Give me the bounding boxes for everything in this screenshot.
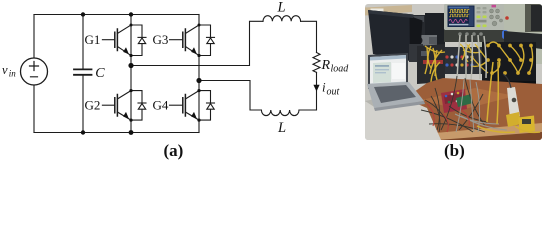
- svg-text:G3: G3: [153, 32, 169, 47]
- svg-text:R: R: [321, 58, 331, 73]
- svg-text:v: v: [2, 63, 8, 77]
- svg-text:G4: G4: [153, 97, 169, 112]
- svg-text:in: in: [9, 69, 17, 79]
- svg-text:out: out: [327, 87, 340, 98]
- svg-text:L: L: [277, 120, 286, 136]
- svg-text:i: i: [322, 80, 326, 95]
- svg-text:load: load: [331, 64, 350, 75]
- svg-text:G2: G2: [85, 97, 101, 112]
- svg-text:L: L: [277, 0, 286, 15]
- svg-text:G1: G1: [85, 32, 101, 47]
- svg-text:C: C: [95, 66, 105, 81]
